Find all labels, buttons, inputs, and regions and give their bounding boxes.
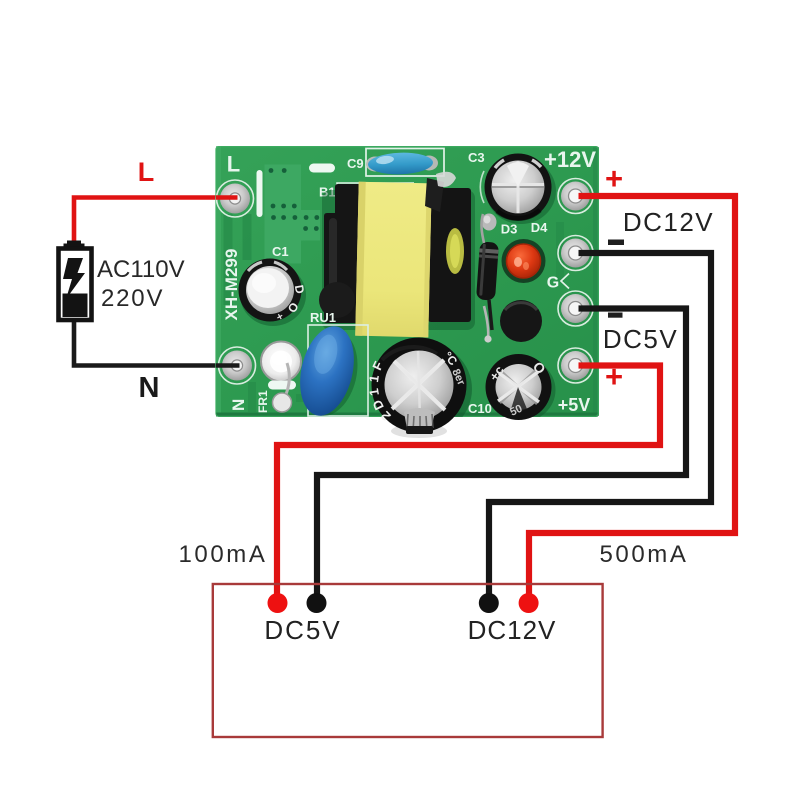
component lead wire near Q2 <box>484 306 488 339</box>
capacitor C1 <box>239 259 308 327</box>
transformer T1 right core <box>428 188 471 322</box>
svg-text:+5V: +5V <box>558 395 591 415</box>
diode D3 (black cylinder) <box>476 241 499 300</box>
wire N end segment over pad <box>216 363 240 368</box>
varistor RU1 (blue disc) <box>292 321 367 422</box>
svg-text:D4: D4 <box>531 220 548 235</box>
pad L <box>217 180 254 217</box>
svg-text:500mA: 500mA <box>599 541 688 568</box>
svg-text:RU1: RU1 <box>310 310 336 325</box>
wire DC12V negative (black) <box>489 253 711 598</box>
transformer shadow <box>322 190 475 330</box>
capacitor C10 <box>486 354 556 422</box>
svg-text:100mA: 100mA <box>178 541 267 568</box>
silkscreen box C9 <box>366 149 444 177</box>
silkscreen light copper patch top-left <box>265 165 321 264</box>
pad N <box>219 347 256 384</box>
transformer yellow tape <box>355 182 431 338</box>
svg-text:DC5V: DC5V <box>264 615 341 645</box>
svg-text:+12V: +12V <box>544 147 596 172</box>
label minus DC12V <box>608 240 624 246</box>
svg-text:+: + <box>605 359 623 394</box>
silkscreen bar vertical near pad L <box>257 170 263 217</box>
svg-text:D3: D3 <box>501 222 518 237</box>
pad DC12V- <box>558 236 593 271</box>
label minus DC5V <box>608 313 623 318</box>
svg-text:N: N <box>229 399 248 411</box>
PCB board XH-M299 <box>216 146 599 417</box>
svg-text:L: L <box>138 157 155 187</box>
pad +5V <box>558 348 593 383</box>
svg-text:C9: C9 <box>347 156 364 171</box>
pad +12V <box>558 179 593 214</box>
silkscreen box B1 <box>337 183 414 199</box>
fuse resistor FR1 (white disc) <box>261 342 301 382</box>
capacitor C9 (blue oval) <box>366 157 384 172</box>
svg-text:DC5V: DC5V <box>603 324 678 354</box>
svg-text:+: + <box>605 161 623 196</box>
silkscreen varistor box <box>308 325 368 416</box>
svg-text:C10: C10 <box>468 401 492 416</box>
svg-text:DC12V: DC12V <box>468 615 557 645</box>
FR1 lead pad <box>273 393 292 412</box>
LED D4 (red) <box>502 239 546 283</box>
terminal dot DC5V - (black) <box>307 593 327 613</box>
solder blob near diode <box>482 214 497 231</box>
terminal dot DC12V + (red) <box>519 593 539 613</box>
svg-text:XH-M299: XH-M299 <box>222 249 241 321</box>
silkscreen bar horizontal top <box>309 164 335 173</box>
pad DC5V- <box>558 291 593 326</box>
svg-text:C3: C3 <box>468 150 485 165</box>
svg-text:FR1: FR1 <box>256 390 270 413</box>
transformer winding visible <box>446 228 464 274</box>
silkscreen arc around C3 <box>480 171 484 203</box>
svg-text:C1: C1 <box>272 244 289 259</box>
terminal dot DC5V + (red) <box>268 593 288 613</box>
wire L (red input wire from battery to pad L) <box>74 198 235 243</box>
svg-text:AC110V: AC110V <box>97 256 185 283</box>
svg-text:N: N <box>139 372 160 404</box>
wire N (black input wire from battery to pad N) <box>74 320 237 366</box>
load box (red rectangle) <box>213 584 603 737</box>
svg-text:L: L <box>227 152 240 177</box>
diode lead wire <box>481 214 484 243</box>
terminal dot DC12V - (black) <box>479 593 499 613</box>
wire DC5V negative (black) <box>317 309 686 599</box>
wire L end segment over pad <box>216 195 238 200</box>
svg-text:G: G <box>547 275 559 292</box>
capacitor C3 <box>485 154 557 225</box>
svg-text:DC12V: DC12V <box>623 207 714 237</box>
svg-text:220V: 220V <box>101 285 164 312</box>
capacitor C2 (big electrolytic) <box>366 338 472 439</box>
wire +5V output (red) <box>277 366 660 599</box>
wire +12V output (red) <box>529 196 735 598</box>
transistor Q1 <box>319 282 355 318</box>
silkscreen bar under FR1 <box>268 381 296 390</box>
transformer top-right dark tab <box>425 178 444 212</box>
transformer T1 left core <box>324 184 361 323</box>
transistor Q2 <box>500 300 542 342</box>
battery AC source symbol <box>59 241 92 321</box>
FR1 lead wire <box>283 363 289 400</box>
